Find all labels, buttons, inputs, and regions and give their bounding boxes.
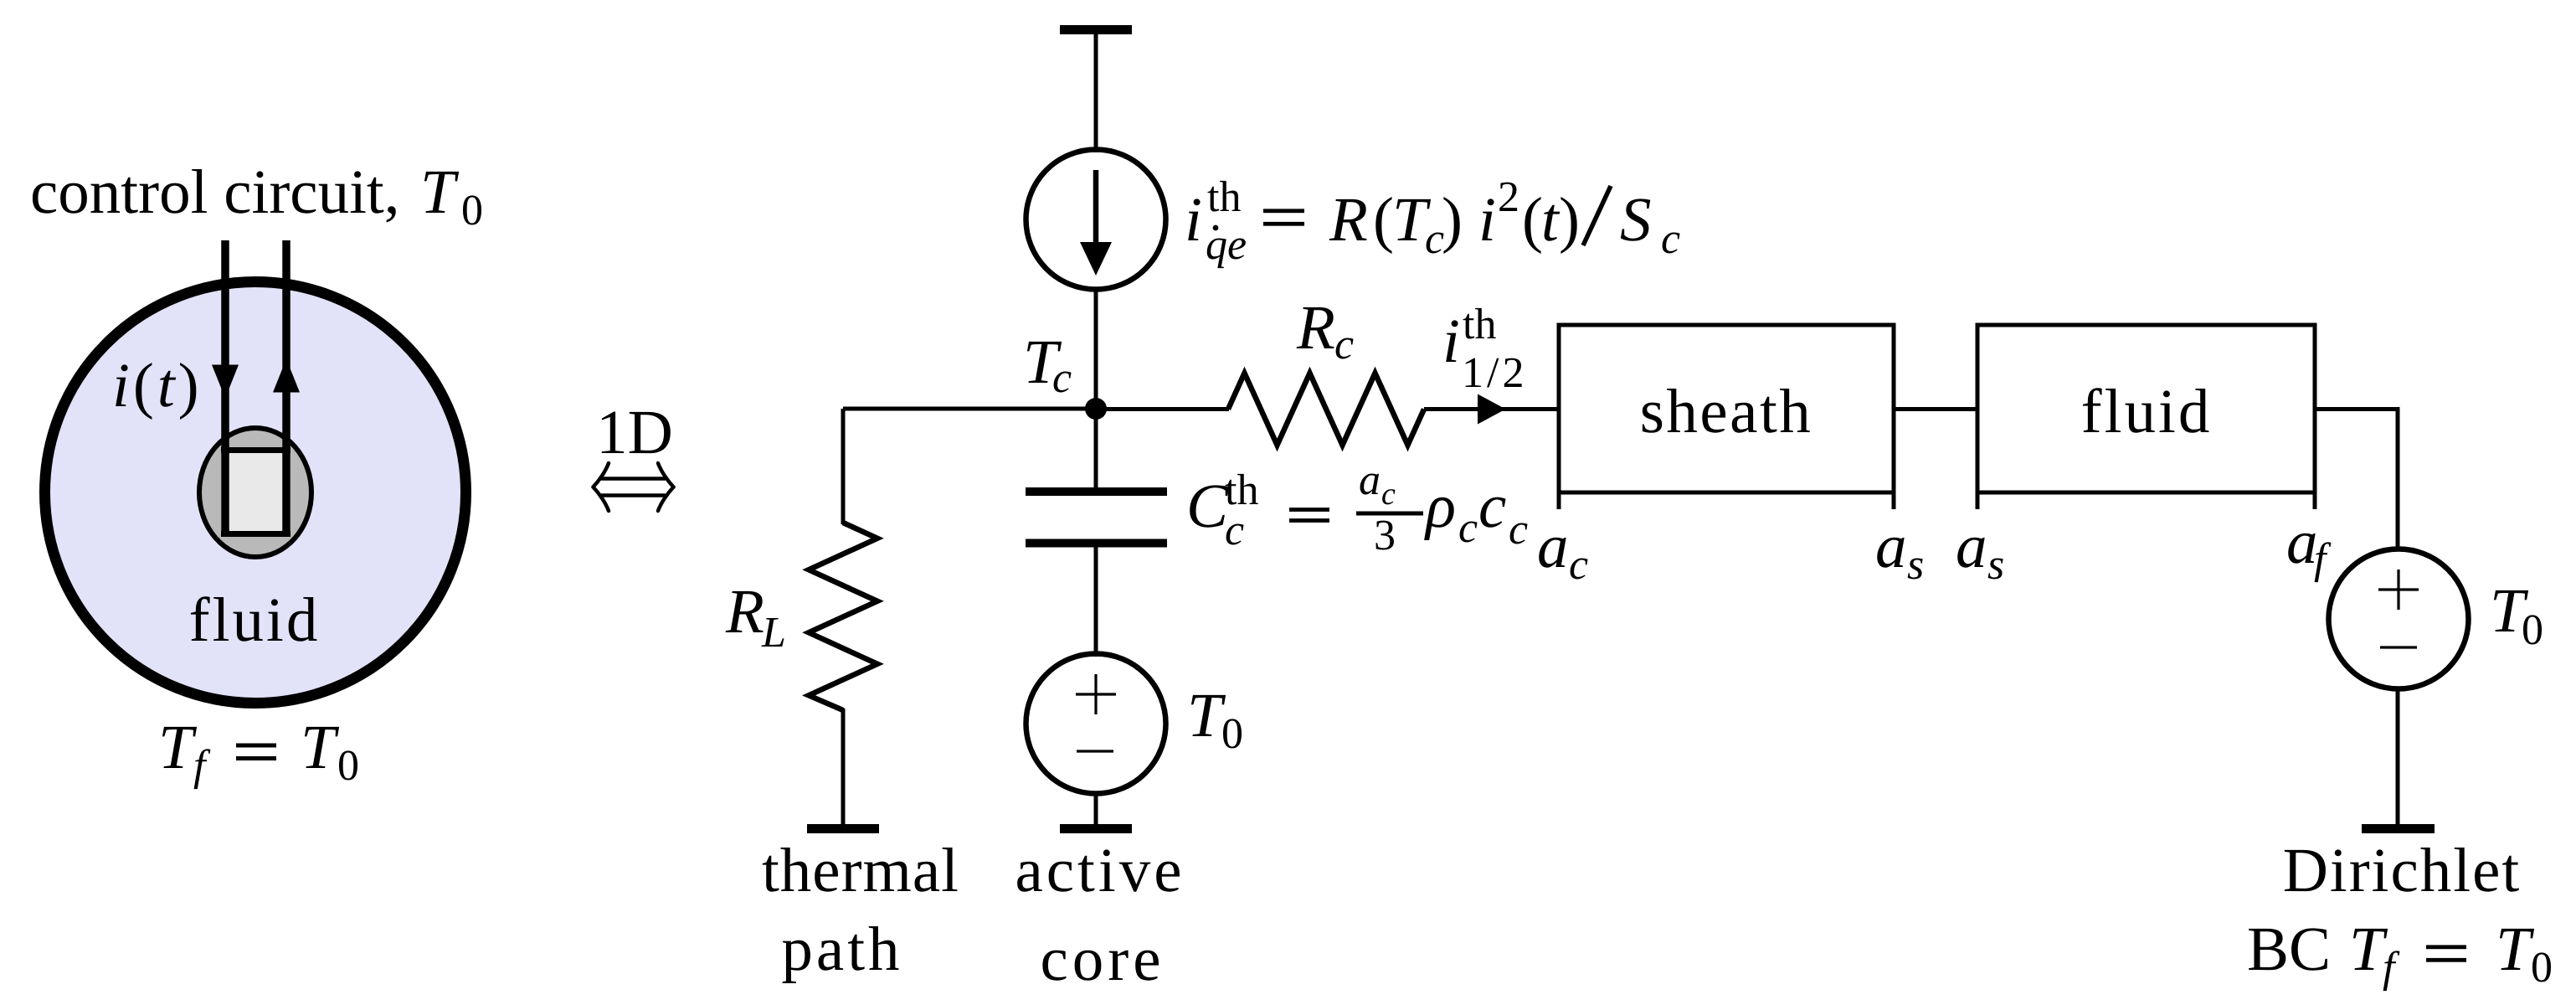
svg-text:i: i xyxy=(1185,185,1202,255)
label thermal path xyxy=(762,836,959,984)
svg-text:th: th xyxy=(1463,301,1496,348)
svg-text:sheath: sheath xyxy=(1640,377,1813,446)
svg-text:0: 0 xyxy=(2531,944,2553,992)
svg-text:0: 0 xyxy=(337,742,359,790)
svg-text:control circuit,: control circuit, xyxy=(30,157,400,227)
current source xyxy=(1026,150,1166,290)
svg-text:R: R xyxy=(725,577,764,647)
equivalence arrow xyxy=(594,463,674,511)
voltage source V1 xyxy=(1026,654,1166,794)
label i1/2 xyxy=(1442,301,1527,397)
svg-text:S: S xyxy=(1620,185,1652,255)
svg-text:): ) xyxy=(1442,185,1463,255)
svg-text:i: i xyxy=(1478,185,1496,255)
terminal label as (fluid left) xyxy=(1956,512,2004,589)
svg-text:c: c xyxy=(1458,504,1478,552)
svg-text:c: c xyxy=(1381,477,1396,512)
svg-text:0: 0 xyxy=(2522,606,2543,654)
label Rc xyxy=(1296,293,1354,368)
fluid box xyxy=(1977,325,2315,509)
svg-text:L: L xyxy=(761,609,786,657)
wire node left xyxy=(843,407,1096,411)
svg-text:0: 0 xyxy=(1221,710,1243,758)
resistor RL xyxy=(809,523,877,710)
capacitor Cc xyxy=(1026,487,1167,548)
svg-text:th: th xyxy=(1207,173,1241,221)
svg-text:s: s xyxy=(1907,541,1924,589)
label active core xyxy=(1015,836,1185,994)
wire lead right xyxy=(282,240,291,537)
svg-text:ρ: ρ xyxy=(1424,472,1456,541)
current arrow i1/2 xyxy=(1478,394,1506,425)
svg-text:1D: 1D xyxy=(596,398,673,467)
svg-text:i: i xyxy=(1442,307,1460,376)
wire node to capacitor xyxy=(1094,409,1098,489)
svg-text:c: c xyxy=(1509,506,1528,554)
svg-text:T: T xyxy=(301,713,340,782)
wire V1 to ground xyxy=(1094,791,1098,828)
svg-text:3: 3 xyxy=(1374,512,1396,559)
svg-text:a: a xyxy=(1359,456,1381,504)
svg-text:active: active xyxy=(1015,836,1185,905)
sheath box xyxy=(1559,325,1894,509)
svg-text:T: T xyxy=(1187,681,1226,750)
wire Rc to sheath xyxy=(1424,407,1559,411)
fluid circle xyxy=(45,282,466,703)
svg-text:core: core xyxy=(1040,925,1165,994)
svg-text:fluid: fluid xyxy=(189,585,321,655)
label Dirichlet BC xyxy=(2247,836,2553,992)
wire rail to source xyxy=(1094,34,1098,152)
svg-text:fluid: fluid xyxy=(2081,377,2213,446)
ground Dirichlet xyxy=(2362,824,2435,833)
label T0 (V2) xyxy=(2490,576,2543,654)
wire capacitor to V1 xyxy=(1094,547,1098,657)
svg-text:c: c xyxy=(1661,215,1680,263)
ground active core xyxy=(1060,824,1132,833)
label Tf = T0 xyxy=(158,713,359,790)
label control circuit, T0 xyxy=(30,157,483,234)
arrow down on left lead xyxy=(212,365,239,399)
svg-text:(: ( xyxy=(1373,185,1394,255)
svg-text:a: a xyxy=(1537,512,1569,581)
wire left drop xyxy=(841,409,846,524)
svg-text:qe: qe xyxy=(1206,221,1247,269)
svg-text:c: c xyxy=(1478,472,1506,541)
terminal label as (sheath right) xyxy=(1875,512,1924,589)
terminal label af xyxy=(2286,508,2332,583)
wire source to node xyxy=(1094,289,1098,409)
svg-text:C: C xyxy=(1186,472,1229,541)
svg-text:BC: BC xyxy=(2247,915,2331,984)
svg-text:0: 0 xyxy=(461,187,483,234)
svg-text:s: s xyxy=(1987,541,2004,589)
svg-text:R: R xyxy=(1329,185,1368,255)
wire RL to ground xyxy=(841,709,846,828)
svg-text:thermal: thermal xyxy=(762,836,959,905)
label T0 (V1) xyxy=(1187,681,1243,758)
svg-text:a: a xyxy=(1875,512,1907,581)
wire sheath to fluid xyxy=(1894,407,1977,411)
svg-text:c: c xyxy=(1569,541,1588,589)
svg-text:c: c xyxy=(1334,321,1354,368)
svg-text:1/2: 1/2 xyxy=(1462,349,1527,397)
voltage source V2 xyxy=(2329,549,2469,689)
label Cc formula xyxy=(1186,456,1528,559)
svg-text:c: c xyxy=(1052,354,1072,402)
terminal label ac xyxy=(1537,512,1588,589)
svg-text:path: path xyxy=(781,915,902,984)
wire node right xyxy=(1096,407,1229,411)
svg-text:T: T xyxy=(2496,915,2535,984)
wire fluid box to V2 xyxy=(2315,410,2398,551)
label RL xyxy=(725,577,786,657)
svg-text:T: T xyxy=(158,713,198,782)
svg-text:T: T xyxy=(420,157,460,227)
svg-text:a: a xyxy=(1956,512,1987,581)
sheath ellipse xyxy=(199,428,311,557)
node Tc xyxy=(1085,398,1107,420)
label ith_qe formula xyxy=(1185,173,1680,269)
svg-text:c: c xyxy=(1225,507,1244,554)
label Tc xyxy=(1023,327,1072,402)
svg-text:(: ( xyxy=(1522,185,1543,255)
wire lead left xyxy=(221,240,229,537)
svg-text:2: 2 xyxy=(1498,173,1519,221)
arrow up on right lead xyxy=(273,359,300,393)
ground thermal path xyxy=(807,824,879,833)
svg-text:): ) xyxy=(1559,185,1580,255)
core rectangle xyxy=(221,447,291,537)
svg-text:a: a xyxy=(2286,508,2318,577)
svg-text:R: R xyxy=(1296,293,1335,363)
svg-text:i(t): i(t) xyxy=(112,351,203,420)
wire V2 to ground xyxy=(2396,688,2400,828)
svg-text:t: t xyxy=(1541,185,1561,255)
svg-text:Dirichlet: Dirichlet xyxy=(2283,836,2522,905)
top rail xyxy=(1060,25,1132,34)
resistor Rc xyxy=(1228,374,1424,446)
